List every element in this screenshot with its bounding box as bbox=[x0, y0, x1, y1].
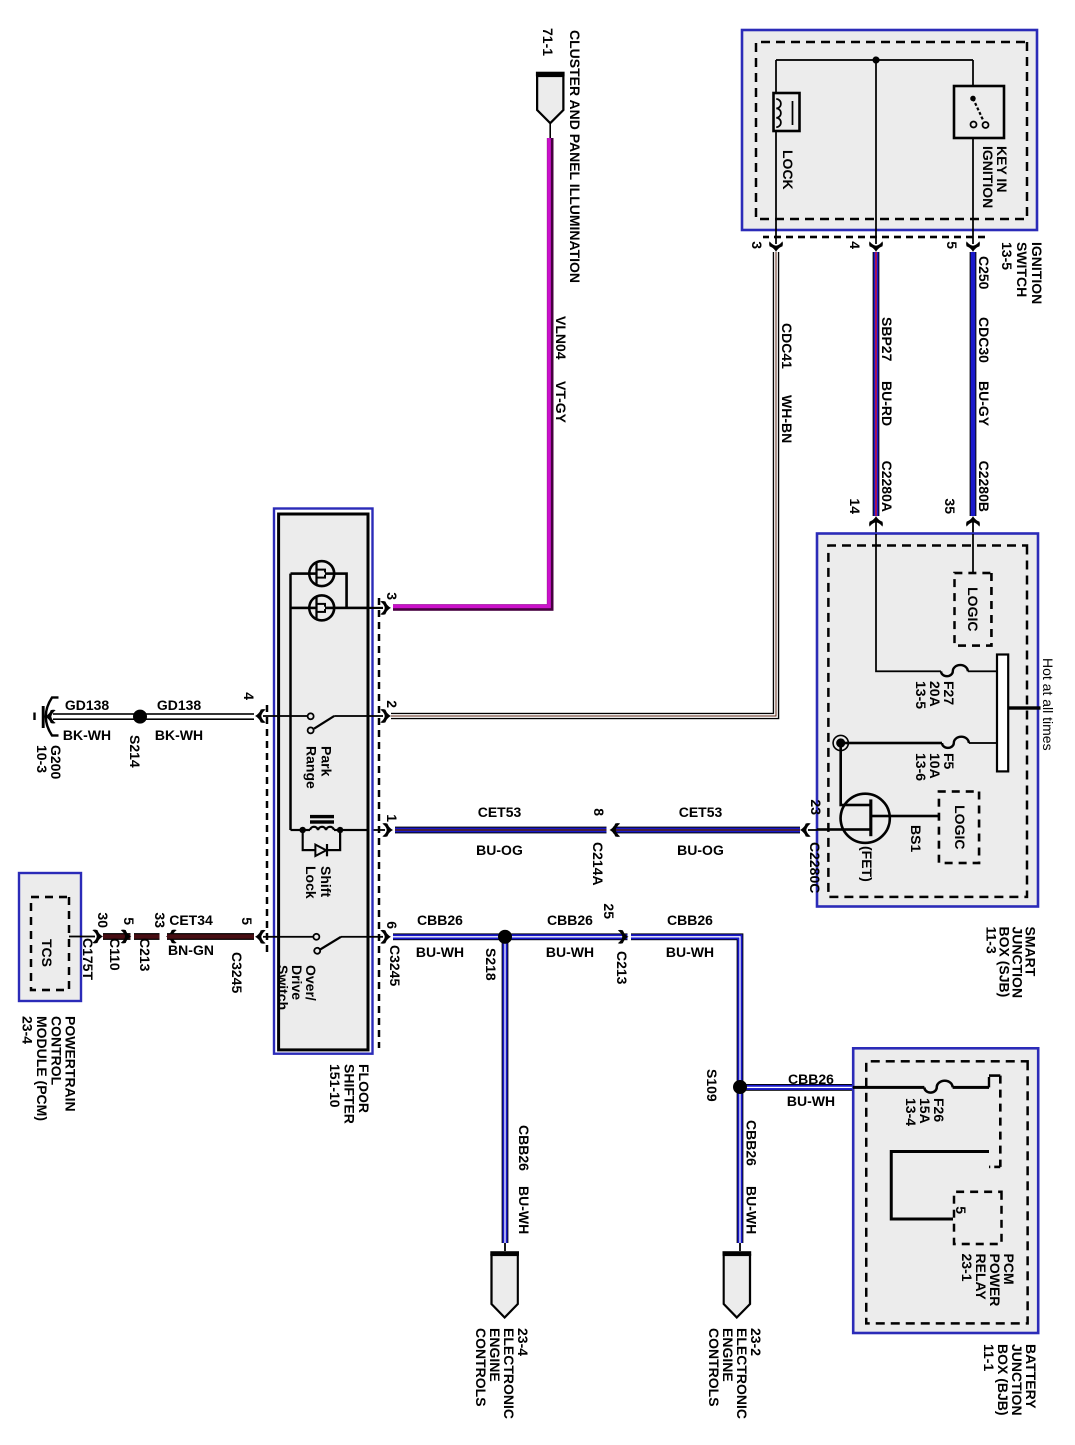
svg-text:POWER: POWER bbox=[987, 1254, 1003, 1307]
svg-text:Over/: Over/ bbox=[303, 965, 319, 1001]
label BU-WH seg3 bbox=[666, 944, 714, 960]
pin number 4 bbox=[847, 241, 863, 249]
pin 2 stub bbox=[368, 715, 383, 717]
pin 5 stub bbox=[263, 936, 279, 938]
svg-text:BS1: BS1 bbox=[908, 825, 924, 852]
label C213 pin33 bbox=[137, 938, 153, 972]
LOCK solenoid bbox=[774, 93, 800, 131]
svg-text:1: 1 bbox=[384, 814, 400, 822]
svg-text:ENGINE: ENGINE bbox=[487, 1328, 503, 1382]
svg-text:25: 25 bbox=[601, 903, 617, 919]
gate wire to LOGIC 2 bbox=[871, 815, 938, 818]
svg-text:14: 14 bbox=[847, 498, 863, 514]
TCS box in PCM bbox=[19, 873, 81, 1001]
node diode top bbox=[337, 827, 343, 833]
connector bracket in BJB bbox=[989, 1076, 1000, 1167]
pin 3 wire through lamp 2 bbox=[291, 607, 384, 610]
fuse F5 bbox=[942, 737, 969, 748]
svg-text:BK-WH: BK-WH bbox=[63, 727, 111, 743]
label C250 bbox=[976, 256, 992, 290]
label GD138 lower bbox=[65, 697, 110, 713]
label BATTERY JUNCTION BOX (BJB) 11-1 bbox=[981, 1344, 1039, 1416]
svg-text:151-10: 151-10 bbox=[327, 1064, 343, 1108]
svg-text:CBB26: CBB26 bbox=[547, 912, 593, 928]
svg-text:BATTERY: BATTERY bbox=[1023, 1344, 1039, 1409]
svg-text:GD138: GD138 bbox=[65, 697, 110, 713]
svg-text:BU-OG: BU-OG bbox=[476, 842, 523, 858]
svg-text:TCS: TCS bbox=[39, 939, 55, 967]
svg-text:15A: 15A bbox=[917, 1098, 933, 1124]
battery junction box (BJB) bbox=[853, 1048, 1038, 1333]
label CBB26 seg5 bbox=[516, 1125, 532, 1171]
svg-text:CBB26: CBB26 bbox=[667, 912, 713, 928]
svg-text:11-3: 11-3 bbox=[984, 927, 1000, 954]
svg-text:BU-WH: BU-WH bbox=[516, 1186, 532, 1234]
svg-text:G200: G200 bbox=[48, 745, 64, 779]
label KEY IN IGNITION bbox=[980, 146, 1010, 208]
wire GD138 BK-WH lower segment bbox=[53, 713, 140, 720]
LOGIC box 2 bbox=[939, 792, 979, 864]
lamp 2 bbox=[309, 595, 334, 620]
label BU-WH seg4 bbox=[744, 1186, 760, 1234]
label G200 10-3 bbox=[34, 745, 64, 779]
wire pin3 row inside ignition bbox=[775, 60, 777, 244]
svg-text:POWERTRAIN: POWERTRAIN bbox=[63, 1016, 79, 1112]
arrow at shifter pin 3 bbox=[380, 601, 391, 615]
label BU-GY bbox=[976, 381, 992, 427]
svg-text:F26: F26 bbox=[931, 1098, 947, 1122]
svg-text:BU-OG: BU-OG bbox=[677, 842, 724, 858]
label S218 bbox=[483, 948, 499, 981]
svg-text:23: 23 bbox=[808, 799, 824, 815]
fuse F26 bbox=[924, 1081, 952, 1093]
svg-text:ENGINE: ENGINE bbox=[720, 1328, 736, 1382]
label S214 bbox=[127, 735, 143, 768]
svg-text:C110: C110 bbox=[107, 938, 123, 971]
svg-text:LOGIC: LOGIC bbox=[965, 587, 981, 631]
lamp return rail wire bbox=[289, 574, 292, 830]
wire CET53 BU-OG upper bbox=[613, 827, 800, 834]
svg-text:3: 3 bbox=[384, 592, 400, 600]
shift lock core bars bbox=[310, 817, 334, 822]
label CET34 bbox=[169, 912, 213, 928]
label BU-OG lower bbox=[476, 842, 523, 858]
park range switch bbox=[279, 713, 368, 733]
svg-text:C213: C213 bbox=[614, 951, 630, 985]
wire pin35 to LOGIC bbox=[972, 534, 974, 573]
label Over/Drive Switch bbox=[275, 965, 319, 1010]
label FLOOR SHIFTER 151-10 bbox=[327, 1064, 372, 1124]
label BU-WH seg5 bbox=[516, 1186, 532, 1234]
wire CET34 BN-GN segment b bbox=[134, 933, 160, 940]
connector C3245 dashed line bottom bbox=[266, 705, 268, 955]
pin number 6 bbox=[384, 921, 400, 929]
Hot at all times lead bbox=[1008, 706, 1040, 709]
svg-text:C3245: C3245 bbox=[387, 945, 403, 986]
label C175T bbox=[80, 938, 96, 980]
PCM power relay box bbox=[954, 1192, 1002, 1244]
label C214A bbox=[590, 842, 606, 886]
pin number 5 bbox=[944, 241, 960, 249]
wire CBB26 BU-WH C213 to S109 bbox=[631, 937, 740, 1086]
connector C213 arrow pin 25 bbox=[618, 930, 629, 944]
arrow at shifter pin 6 bbox=[380, 930, 391, 944]
svg-text:LOGIC: LOGIC bbox=[952, 805, 968, 849]
wire CET53 BU-OG lower bbox=[395, 827, 607, 834]
label BS1 bbox=[908, 825, 924, 852]
svg-text:13-5: 13-5 bbox=[913, 681, 929, 709]
pin 4 stub bbox=[263, 715, 279, 717]
label CBB26 seg2 bbox=[547, 912, 593, 928]
arrow at shifter pin 4 bbox=[255, 709, 266, 723]
svg-text:Range: Range bbox=[304, 746, 320, 789]
label 23-2 ELECTRONIC ENGINE CONTROLS bbox=[706, 1328, 764, 1419]
label F5 10A 13-6 bbox=[913, 753, 957, 781]
label CET53 lower bbox=[478, 804, 522, 820]
shift lock coil wire bbox=[291, 827, 369, 830]
LOGIC box 1 bbox=[955, 573, 992, 646]
connector C214A arrow bbox=[610, 823, 621, 837]
connector C3245 dashed line top bbox=[378, 598, 380, 1048]
label Shift Lock bbox=[303, 866, 334, 899]
ignition internal bus wire bbox=[776, 59, 973, 61]
label C3245 top bbox=[387, 945, 403, 986]
svg-text:S214: S214 bbox=[127, 735, 143, 768]
splice S218 bbox=[498, 930, 512, 944]
svg-text:C2280B: C2280B bbox=[976, 461, 992, 512]
junction node on bus bbox=[872, 56, 879, 63]
pin 5 arrow at C250 bbox=[966, 241, 980, 252]
svg-text:Drive: Drive bbox=[289, 965, 305, 1000]
svg-text:C2280C: C2280C bbox=[807, 842, 823, 893]
label 23-4 ELECTRONIC ENGINE CONTROLS bbox=[473, 1328, 531, 1419]
pin number 5 C110 bbox=[121, 917, 137, 925]
label Hot at all times bbox=[1040, 658, 1056, 751]
svg-text:ELECTRONIC: ELECTRONIC bbox=[734, 1328, 750, 1419]
ignition switch box bbox=[742, 30, 1037, 230]
wire CBB26 BU-WH S218 branch to engine controls bbox=[502, 937, 509, 1251]
connector C213 arrow pin 33 bbox=[166, 930, 177, 944]
svg-text:3: 3 bbox=[749, 241, 765, 249]
svg-text:CET34: CET34 bbox=[169, 912, 213, 928]
svg-text:CBB26: CBB26 bbox=[744, 1120, 760, 1166]
arrow at shifter pin 5 bbox=[255, 930, 266, 944]
svg-text:VT-GY: VT-GY bbox=[553, 381, 569, 424]
svg-text:SWITCH: SWITCH bbox=[1014, 242, 1030, 297]
svg-text:C3245: C3245 bbox=[229, 952, 245, 993]
svg-text:Park: Park bbox=[319, 746, 335, 777]
label VLN04 bbox=[553, 316, 569, 360]
label CET53 upper bbox=[679, 804, 723, 820]
svg-text:5: 5 bbox=[239, 917, 255, 925]
label BU-WH seg2 bbox=[546, 944, 594, 960]
pin number 3 bbox=[384, 592, 400, 600]
pin number 3 bbox=[749, 241, 765, 249]
label F27 20A 13-5 bbox=[913, 681, 957, 709]
connector C250 dashed line bbox=[763, 236, 985, 239]
transistor FET bbox=[841, 794, 890, 843]
label 71-1 bbox=[540, 28, 556, 56]
wire VLN04 VT-GY bbox=[393, 138, 550, 608]
pin number 5 relay bbox=[953, 1206, 969, 1214]
svg-text:71-1: 71-1 bbox=[540, 28, 556, 56]
label BU-OG upper bbox=[677, 842, 724, 858]
svg-text:LOCK: LOCK bbox=[780, 150, 796, 190]
label BU-WH seg1 bbox=[416, 944, 464, 960]
svg-text:(FET): (FET) bbox=[859, 846, 875, 882]
svg-text:BU-GY: BU-GY bbox=[976, 381, 992, 427]
arrow at SJB pin 35 bbox=[966, 516, 980, 534]
label BU-RD bbox=[879, 381, 895, 426]
pin number 30 bbox=[95, 912, 111, 928]
svg-text:BU-WH: BU-WH bbox=[666, 944, 714, 960]
svg-text:C250: C250 bbox=[976, 256, 992, 290]
wire node to FET bbox=[841, 743, 870, 805]
svg-text:BU-WH: BU-WH bbox=[744, 1186, 760, 1234]
label (FET) bbox=[859, 846, 875, 882]
svg-text:ELECTRONIC: ELECTRONIC bbox=[501, 1328, 517, 1419]
svg-text:F27: F27 bbox=[941, 681, 957, 705]
svg-text:CBB26: CBB26 bbox=[516, 1125, 532, 1171]
svg-text:5: 5 bbox=[953, 1206, 969, 1214]
pin number 33 bbox=[152, 912, 168, 928]
label CLUSTER AND PANEL ILLUMINATION bbox=[567, 30, 583, 283]
wire pin4 row inside ignition bbox=[875, 60, 877, 244]
svg-text:MODULE (PCM): MODULE (PCM) bbox=[34, 1016, 50, 1121]
svg-text:20A: 20A bbox=[927, 681, 943, 707]
svg-text:C175T: C175T bbox=[80, 938, 96, 980]
svg-text:33: 33 bbox=[152, 912, 168, 928]
svg-text:13-4: 13-4 bbox=[903, 1098, 919, 1126]
label CDC30 bbox=[976, 317, 992, 363]
label C3245 bottom bbox=[229, 952, 245, 993]
label CDC41 bbox=[779, 323, 795, 369]
wire CBB26 BU-WH S109 to engine controls bbox=[737, 1086, 744, 1251]
svg-text:PCM: PCM bbox=[1001, 1254, 1017, 1285]
wire CBB26 BU-WH pin6 to S218 bbox=[393, 933, 505, 940]
svg-text:10A: 10A bbox=[927, 753, 943, 779]
svg-text:RELAY: RELAY bbox=[973, 1254, 989, 1301]
svg-text:Hot at all times: Hot at all times bbox=[1040, 658, 1056, 751]
svg-text:BK-WH: BK-WH bbox=[155, 727, 203, 743]
pin number 1 bbox=[384, 814, 400, 822]
wire pin5 row inside ignition bbox=[972, 60, 974, 244]
svg-text:CDC41: CDC41 bbox=[779, 323, 795, 369]
svg-text:CONTROL: CONTROL bbox=[49, 1016, 65, 1086]
lamp 1 bbox=[309, 561, 334, 586]
pin number 5 shifter bbox=[239, 917, 255, 925]
wire CDC30 BU-GY bbox=[970, 252, 977, 516]
label Park Range bbox=[304, 746, 335, 789]
svg-text:KEY IN: KEY IN bbox=[994, 146, 1010, 192]
svg-text:VLN04: VLN04 bbox=[553, 316, 569, 360]
svg-text:S109: S109 bbox=[704, 1069, 720, 1102]
svg-text:5: 5 bbox=[121, 917, 137, 925]
svg-text:13-5: 13-5 bbox=[999, 242, 1015, 270]
pin number 4 bbox=[241, 692, 257, 700]
svg-text:6: 6 bbox=[384, 921, 400, 929]
svg-text:23-1: 23-1 bbox=[959, 1254, 975, 1282]
node diode bottom bbox=[300, 827, 306, 833]
svg-text:FLOOR: FLOOR bbox=[356, 1064, 372, 1113]
pin number 35 bbox=[942, 498, 958, 514]
splice S109 bbox=[733, 1080, 747, 1094]
label C2280B bbox=[976, 461, 992, 512]
svg-text:S218: S218 bbox=[483, 948, 499, 981]
svg-text:CBB26: CBB26 bbox=[417, 912, 463, 928]
svg-text:10-3: 10-3 bbox=[34, 745, 50, 773]
label BK-WH upper bbox=[155, 727, 203, 743]
wire CBB26 BU-WH S218 to C213 bbox=[505, 933, 628, 940]
svg-text:SHIFTER: SHIFTER bbox=[342, 1064, 358, 1124]
svg-text:C213: C213 bbox=[137, 938, 153, 972]
label C110 bbox=[107, 938, 123, 971]
wire bus to fuse F5 to node bbox=[841, 742, 997, 744]
fuse F27 bbox=[941, 665, 968, 676]
lamp bracket wires bbox=[291, 574, 347, 608]
wire SBP27 BU-RD bbox=[873, 252, 880, 516]
arrow at shifter pin 2 bbox=[380, 709, 391, 723]
label BK-WH lower bbox=[63, 727, 111, 743]
wire CET34 BN-GN segment a bbox=[103, 933, 131, 940]
label CBB26 seg4 bbox=[744, 1120, 760, 1166]
wire pin14 to fuse F27 and bus bbox=[876, 534, 997, 671]
svg-text:CDC30: CDC30 bbox=[976, 317, 992, 363]
svg-text:13-6: 13-6 bbox=[913, 753, 929, 781]
svg-text:IGNITION: IGNITION bbox=[980, 146, 996, 208]
label WH-BN bbox=[779, 395, 795, 443]
floor shifter box bbox=[274, 509, 373, 1054]
arrow at TCS pin 30 C175T bbox=[92, 930, 103, 944]
pin 4 arrow at C250 bbox=[869, 241, 883, 252]
wire CET34 BN-GN segment c bbox=[167, 933, 254, 940]
label PCM POWER RELAY 23-1 bbox=[959, 1254, 1017, 1307]
svg-text:C214A: C214A bbox=[590, 842, 606, 886]
svg-text:BN-GN: BN-GN bbox=[168, 942, 214, 958]
svg-text:CBB26: CBB26 bbox=[788, 1071, 834, 1087]
svg-text:8: 8 bbox=[591, 808, 607, 816]
svg-text:5: 5 bbox=[944, 241, 960, 249]
bus bar bbox=[997, 655, 1008, 772]
label IGNITION SWITCH 13-5 bbox=[999, 242, 1045, 304]
wire CBB26 BU-WH S109 to BJB bbox=[740, 1084, 853, 1091]
svg-text:CONTROLS: CONTROLS bbox=[706, 1328, 722, 1407]
svg-text:SBP27: SBP27 bbox=[879, 317, 895, 362]
svg-text:BOX (BJB): BOX (BJB) bbox=[995, 1344, 1011, 1416]
wire CDC41 WH-BN bbox=[391, 252, 776, 716]
svg-text:BU-WH: BU-WH bbox=[546, 944, 594, 960]
svg-text:CET53: CET53 bbox=[478, 804, 522, 820]
TCS pin 30 stub bbox=[69, 936, 95, 938]
label C213 pin25 bbox=[614, 951, 630, 985]
svg-text:JUNCTION: JUNCTION bbox=[1009, 1344, 1025, 1416]
pin 3 arrow at C250 bbox=[769, 241, 783, 252]
svg-text:4: 4 bbox=[847, 241, 863, 249]
splice S214 bbox=[133, 710, 147, 724]
label SMART JUNCTION BOX (SJB) 11-3 bbox=[984, 927, 1039, 999]
label S109 bbox=[704, 1069, 720, 1102]
svg-text:BU-WH: BU-WH bbox=[416, 944, 464, 960]
svg-text:11-1: 11-1 bbox=[981, 1344, 997, 1371]
label BN-GN bbox=[168, 942, 214, 958]
FET source wire to pin 23 bbox=[808, 828, 871, 831]
off-page arrow cluster and panel illumination bbox=[536, 74, 565, 138]
svg-text:23-4: 23-4 bbox=[515, 1328, 531, 1356]
svg-text:CLUSTER AND PANEL ILLUMINATION: CLUSTER AND PANEL ILLUMINATION bbox=[567, 30, 583, 283]
node at FET drain bbox=[833, 735, 848, 750]
svg-text:30: 30 bbox=[95, 912, 111, 928]
arrow at shifter pin 1 bbox=[371, 823, 393, 837]
wire GD138 BK-WH upper segment bbox=[140, 713, 254, 720]
off-page arrow 23-4 electronic engine controls bbox=[490, 1254, 519, 1318]
label C2280A bbox=[879, 461, 895, 512]
svg-text:BU-RD: BU-RD bbox=[879, 381, 895, 426]
connector C110 arrow bbox=[121, 930, 132, 944]
arrow at SJB pin 23 bbox=[800, 823, 811, 837]
ground G200 bbox=[35, 698, 59, 736]
svg-text:F5: F5 bbox=[941, 753, 957, 770]
pin number 25 bbox=[601, 903, 617, 919]
off-page arrow 23-2 electronic engine controls bbox=[723, 1254, 752, 1318]
shift lock diode bbox=[303, 830, 340, 856]
svg-text:Switch: Switch bbox=[275, 965, 291, 1010]
label F26 15A 13-4 bbox=[903, 1098, 947, 1126]
pin number 2 bbox=[384, 700, 400, 708]
svg-text:23-4: 23-4 bbox=[20, 1016, 36, 1044]
wire bracket to PCM power relay bbox=[891, 1152, 989, 1220]
label GD138 upper bbox=[157, 697, 202, 713]
label CBB26 seg3 bbox=[667, 912, 713, 928]
label VT-GY bbox=[553, 381, 569, 424]
svg-text:Shift: Shift bbox=[318, 866, 334, 897]
svg-text:GD138: GD138 bbox=[157, 697, 202, 713]
label SBP27 bbox=[879, 317, 895, 362]
overdrive switch bbox=[279, 934, 368, 954]
pin number 23 bbox=[808, 799, 824, 815]
svg-text:4: 4 bbox=[241, 692, 257, 700]
pin number 14 bbox=[847, 498, 863, 514]
svg-text:IGNITION: IGNITION bbox=[1029, 242, 1045, 304]
svg-text:CET53: CET53 bbox=[679, 804, 723, 820]
svg-text:35: 35 bbox=[942, 498, 958, 514]
wire into fuse F26 bbox=[853, 1077, 989, 1087]
svg-text:CONTROLS: CONTROLS bbox=[473, 1328, 489, 1407]
smart junction box (SJB) bbox=[817, 534, 1038, 907]
label BU-WH at BJB bbox=[787, 1093, 835, 1109]
svg-text:C2280A: C2280A bbox=[879, 461, 895, 512]
svg-text:WH-BN: WH-BN bbox=[779, 395, 795, 443]
label CBB26 seg1 bbox=[417, 912, 463, 928]
label CBB26 at BJB bbox=[788, 1071, 834, 1087]
label LOCK bbox=[780, 150, 796, 190]
label POWERTRAIN CONTROL MODULE (PCM) 23-4 bbox=[20, 1016, 79, 1121]
label C2280C bbox=[807, 842, 823, 893]
pin number 8 bbox=[591, 808, 607, 816]
svg-text:Lock: Lock bbox=[303, 866, 319, 899]
arrow at SJB pin 14 bbox=[869, 516, 883, 534]
KEY IN IGNITION switch bbox=[954, 86, 1004, 138]
pin 6 stub bbox=[368, 936, 383, 938]
svg-text:23-2: 23-2 bbox=[748, 1328, 764, 1356]
svg-text:2: 2 bbox=[384, 700, 400, 708]
svg-text:BU-WH: BU-WH bbox=[787, 1093, 835, 1109]
